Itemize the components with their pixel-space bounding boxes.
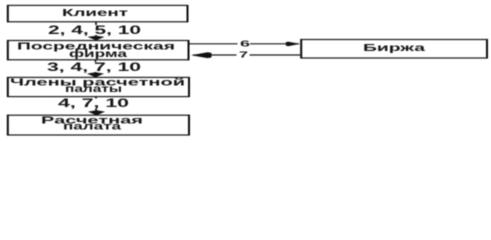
arrowhead into Биржа bbox=[286, 42, 300, 47]
box Посредническая фирма bbox=[8, 40, 189, 60]
wire 7: Биржа to Посредническая фирма bbox=[193, 54, 300, 56]
wire from Посредническая фирма down to Члены расчетной палаты bbox=[95, 60, 97, 74]
wire from Клиент down to Посредническая фирма bbox=[95, 22, 97, 37]
svg-text:палаты: палаты bbox=[65, 84, 122, 95]
svg-text:3, 4, 7, 10: 3, 4, 7, 10 bbox=[47, 60, 142, 74]
svg-text:Биржа: Биржа bbox=[363, 43, 426, 54]
arrowhead into Посредническая фирма from Биржа bbox=[191, 52, 212, 58]
box Клиент bbox=[8, 5, 188, 22]
svg-text:7: 7 bbox=[239, 50, 249, 59]
svg-text:палата: палата bbox=[63, 122, 122, 133]
label "2, 4, 5, 10" bbox=[46, 23, 143, 37]
svg-text:6: 6 bbox=[240, 39, 251, 48]
wire 6: Посредническая фирма to Биржа bbox=[189, 43, 299, 45]
svg-text:фирма: фирма bbox=[69, 48, 128, 60]
label "3, 4, 7, 10" bbox=[45, 60, 143, 74]
wire from Члены расчетной палаты down to Расчетная палата bbox=[95, 96, 97, 112]
label 7 bbox=[237, 50, 250, 60]
arrowhead into Члены расчетной палаты bbox=[87, 72, 104, 77]
label 6 bbox=[238, 38, 252, 48]
box Расчетная палата bbox=[8, 115, 190, 136]
svg-text:4, 7, 10: 4, 7, 10 bbox=[58, 96, 130, 110]
label "4, 7, 10" bbox=[56, 96, 131, 110]
arrowhead into Расчетная палата bbox=[88, 110, 105, 115]
svg-text:Клиент: Клиент bbox=[62, 8, 128, 19]
box Биржа bbox=[301, 39, 487, 58]
svg-text:2, 4, 5, 10: 2, 4, 5, 10 bbox=[48, 23, 142, 37]
box Члены расчетной палаты bbox=[8, 77, 190, 97]
arrowhead into Посредническая фирма bbox=[87, 36, 104, 41]
